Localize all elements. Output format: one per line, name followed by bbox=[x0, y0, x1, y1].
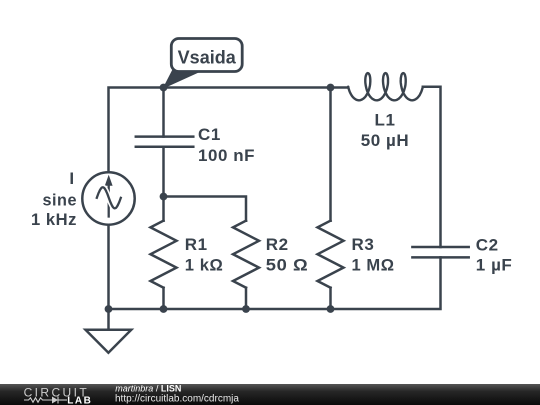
flag Vsaida callout tail bbox=[164, 70, 205, 89]
svg-text:LAB: LAB bbox=[67, 395, 92, 405]
wire: top rail from source to node R3 bbox=[109, 88, 331, 171]
svg-text:R2: R2 bbox=[266, 235, 289, 254]
svg-text:C2: C2 bbox=[476, 235, 499, 254]
resistor R3 bbox=[318, 221, 344, 309]
wire: inductor left lead bbox=[331, 86, 349, 89]
wire: C1 top lead bbox=[162, 88, 165, 137]
ground bbox=[86, 309, 132, 353]
flag Vsaida bubble bbox=[171, 39, 242, 72]
wire: source bottom lead bbox=[107, 226, 110, 310]
wire: node to R2 top bbox=[164, 197, 247, 221]
logo resistor zigzag bbox=[24, 398, 52, 402]
current source I1 bbox=[82, 172, 134, 224]
node ground junction bbox=[105, 305, 113, 313]
node R3 top junction bbox=[327, 84, 335, 92]
resistor R1 bbox=[151, 197, 177, 310]
svg-text:L1: L1 bbox=[375, 110, 396, 129]
svg-text:I: I bbox=[69, 169, 74, 188]
logo diode symbol bbox=[52, 397, 67, 404]
capacitor C1 bbox=[136, 137, 194, 147]
node R1 bottom junction bbox=[160, 305, 168, 313]
node Vsaida junction bbox=[160, 84, 168, 92]
svg-text:1 kHz: 1 kHz bbox=[31, 210, 77, 229]
resistor R2 bbox=[233, 221, 259, 309]
wire: C1 bottom lead to node bbox=[162, 147, 165, 197]
svg-text:Vsaida: Vsaida bbox=[178, 47, 237, 67]
svg-text:1 MΩ: 1 MΩ bbox=[352, 255, 395, 274]
wire: C2 bottom lead to bottom rail bbox=[331, 257, 441, 309]
svg-text:100 nF: 100 nF bbox=[198, 146, 255, 165]
svg-text:R1: R1 bbox=[185, 235, 208, 254]
svg-text:martinbra / LISN: martinbra / LISN bbox=[115, 384, 181, 393]
svg-text:50 Ω: 50 Ω bbox=[266, 255, 309, 274]
footer bar bbox=[0, 384, 540, 405]
svg-text:1 µF: 1 µF bbox=[476, 256, 513, 275]
wire: inductor right lead to C2 top bbox=[423, 87, 441, 247]
svg-text:50 µH: 50 µH bbox=[361, 131, 409, 150]
wire: bottom rail bbox=[109, 308, 331, 311]
node R2 bottom junction bbox=[242, 305, 250, 313]
node R3 bottom junction bbox=[327, 305, 335, 313]
svg-text:R3: R3 bbox=[352, 235, 375, 254]
wire: R3 top lead bbox=[329, 88, 332, 221]
svg-text:http://circuitlab.com/cdrcmja: http://circuitlab.com/cdrcmja bbox=[115, 394, 239, 405]
capacitor C2 bbox=[412, 247, 468, 257]
inductor L1 bbox=[348, 73, 423, 100]
node C1/R1/R2 junction bbox=[160, 193, 168, 201]
svg-text:C1: C1 bbox=[198, 125, 221, 144]
svg-text:1 kΩ: 1 kΩ bbox=[185, 255, 224, 274]
svg-text:sine: sine bbox=[43, 190, 78, 209]
